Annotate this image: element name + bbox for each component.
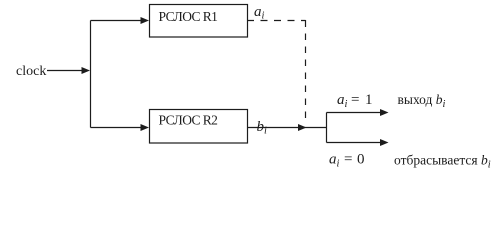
svg-text:clock: clock [16, 64, 46, 79]
wire top out branch [327, 112, 381, 114]
wire clock to trunk [47, 70, 82, 72]
svg-text:ai: ai [254, 4, 265, 22]
svg-text:РСЛОС R1: РСЛОС R1 [159, 9, 218, 24]
register box R2 [150, 110, 248, 144]
svg-text:РСЛОС R2: РСЛОС R2 [159, 113, 218, 128]
wire trunk to R1 [91, 20, 142, 22]
wire trunk to R2 [91, 127, 142, 129]
wire a_i dashed vertical down to junction [305, 20, 307, 118]
svg-text:=: = [351, 92, 359, 108]
svg-text:ai: ai [337, 92, 348, 110]
svg-text:bi: bi [257, 119, 268, 137]
svg-text:=: = [344, 152, 352, 168]
svg-text:0: 0 [357, 152, 365, 168]
svg-text:ai: ai [329, 152, 340, 170]
wire b_i output from R2 [248, 127, 327, 129]
wire bottom out branch [327, 142, 381, 144]
register box R1 [150, 5, 248, 38]
svg-text:отбрасывается bi: отбрасывается bi [394, 153, 491, 171]
svg-text:1: 1 [365, 92, 373, 108]
wire a_i dashed horizontal [248, 20, 306, 22]
svg-text:выход bi: выход bi [398, 92, 446, 110]
wire splitter bracket [326, 113, 328, 143]
wire trunk vertical [90, 21, 92, 128]
